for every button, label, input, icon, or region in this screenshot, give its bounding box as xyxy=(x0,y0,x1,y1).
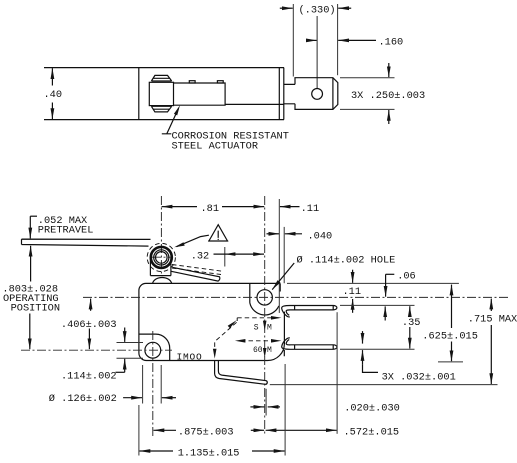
svg-text:3X .250±.003: 3X .250±.003 xyxy=(351,90,425,102)
roller body xyxy=(149,82,173,105)
svg-text:.35: .35 xyxy=(402,317,421,329)
roller top cap xyxy=(151,75,171,81)
top view body bottom edge with extension xyxy=(44,119,284,121)
dim (.330) left extension xyxy=(292,4,294,77)
top view body right edge inner xyxy=(278,68,280,120)
dim .250 bottom extension xyxy=(340,108,395,110)
mounting boss top right xyxy=(250,283,280,315)
hidden mechanism dashed diagonal xyxy=(215,318,238,353)
lever curl outer ring xyxy=(151,247,172,268)
dim 1.135 xyxy=(140,450,174,452)
dim .11 top xyxy=(280,206,300,208)
plunger dome xyxy=(153,277,172,283)
extension body left bottom xyxy=(138,405,140,456)
travel arrowhead upper on centerline xyxy=(263,321,267,331)
dim .160 left arrow xyxy=(307,39,316,41)
lever tab 2 xyxy=(217,81,223,83)
switch body outline xyxy=(139,283,285,360)
top view body top edge with extension xyxy=(44,67,284,69)
dim (.330) right extension xyxy=(337,4,339,75)
dimension .40 upper arrow xyxy=(51,68,53,85)
dimension .40 lower arrow xyxy=(51,103,53,120)
top view body right edge outer xyxy=(283,68,285,120)
dim .06 xyxy=(386,273,395,275)
dim (.330) right arrow xyxy=(338,7,351,9)
lever curl inner ring xyxy=(156,252,168,264)
lever free tip extension line xyxy=(224,247,226,267)
terminal blade 2 xyxy=(291,345,337,350)
lever right arm dashed free position xyxy=(172,265,223,275)
centerline hole BL horizontal xyxy=(21,349,172,351)
terminal hook 1 xyxy=(282,305,291,316)
dim .126 hole xyxy=(142,365,144,404)
dim .160 right arrow xyxy=(338,39,376,41)
svg-text:IMOO: IMOO xyxy=(177,352,203,363)
dim .040 xyxy=(267,233,280,235)
extension body right bottom xyxy=(284,364,286,456)
svg-text:Ø .114±.002 HOLE: Ø .114±.002 HOLE xyxy=(297,254,396,266)
dim (.330) left arrow xyxy=(280,7,293,9)
dim .114 xyxy=(117,342,144,344)
dim .875 xyxy=(154,429,177,431)
extension blade1 top xyxy=(340,304,415,306)
dim .572 xyxy=(266,429,337,431)
common terminal bent xyxy=(215,361,268,385)
svg-text:.114±.002: .114±.002 xyxy=(61,370,117,382)
terminal hook 2 xyxy=(282,338,291,349)
lever flat arm xyxy=(22,239,151,246)
dim .250 top arrow xyxy=(388,63,390,77)
dim .32 xyxy=(214,253,265,255)
extension terminal tip xyxy=(265,389,267,416)
svg-text:60: 60 xyxy=(253,346,263,355)
dim .35 xyxy=(409,306,411,314)
svg-text:S: S xyxy=(254,324,259,333)
svg-text:.11: .11 xyxy=(301,203,320,215)
warning triangle xyxy=(208,225,228,241)
svg-text:.715 MAX: .715 MAX xyxy=(468,314,517,326)
extension blade tips vertical xyxy=(336,312,338,434)
extension line body right xyxy=(283,227,285,283)
svg-text:(.330): (.330) xyxy=(299,5,336,17)
dim .803 operating position xyxy=(30,246,32,282)
dim .250 top extension xyxy=(340,77,395,79)
body slot edge top view xyxy=(225,103,284,105)
pivot bracket xyxy=(150,258,171,276)
svg-text:.81: .81 xyxy=(201,203,220,215)
svg-text:1.135±.015: 1.135±.015 xyxy=(178,447,240,459)
svg-text:.625±.015: .625±.015 xyxy=(422,331,478,343)
dim .625 xyxy=(451,285,453,328)
dim .052 pretravel xyxy=(30,215,37,217)
dim .020 xyxy=(250,406,264,408)
terminal hole centerline xyxy=(316,16,318,88)
terminal tab top view xyxy=(295,78,338,110)
mounting boss bottom left xyxy=(139,334,170,360)
centerline hole TR vertical xyxy=(264,196,266,434)
svg-text:.06: .06 xyxy=(397,271,416,283)
svg-text:3X .032±.001: 3X .032±.001 xyxy=(382,372,456,384)
svg-text:.572±.015: .572±.015 xyxy=(344,427,400,439)
hidden mechanism dashed middle xyxy=(241,340,277,342)
roller bottom cap xyxy=(151,106,171,112)
warning triangle leader xyxy=(177,235,209,247)
svg-text:.040: .040 xyxy=(308,231,333,243)
top view body left edge xyxy=(138,68,140,120)
centerline hole TR horizontal xyxy=(83,296,509,298)
lever arm top view xyxy=(174,83,226,105)
extension blade2 bottom xyxy=(340,348,415,350)
hidden mechanism dashed top xyxy=(237,317,278,319)
dim 3X .032 xyxy=(362,331,364,344)
svg-text:.40: .40 xyxy=(44,89,63,101)
terminal neck top view xyxy=(284,84,295,103)
leader hole .114 xyxy=(272,263,294,290)
travel arrowhead lower on centerline xyxy=(263,348,267,358)
lever right arm solid xyxy=(171,267,220,281)
svg-text:.875±.003: .875±.003 xyxy=(178,427,234,439)
lever curl middle ring xyxy=(154,250,169,265)
mounting hole bottom left xyxy=(145,342,161,358)
centerline hole BL vertical xyxy=(152,331,154,438)
dim .81 xyxy=(162,206,197,208)
extension body top right xyxy=(287,282,459,284)
svg-text:.406±.003: .406±.003 xyxy=(61,319,117,331)
centerline lever pivot vertical xyxy=(160,196,162,276)
svg-text:.11: .11 xyxy=(343,286,362,298)
svg-text:.160: .160 xyxy=(379,36,404,48)
terminal hole top view xyxy=(312,89,323,100)
extension line boss right xyxy=(278,199,280,313)
centerline curl horizontal xyxy=(152,256,173,258)
svg-text:Ø .126±.002: Ø .126±.002 xyxy=(49,393,117,405)
dim .715 max xyxy=(490,299,492,311)
lever tab 1 xyxy=(189,81,195,83)
svg-text:M: M xyxy=(267,324,272,333)
svg-text:STEEL ACTUATOR: STEEL ACTUATOR xyxy=(172,141,259,153)
dim .250 bottom arrow xyxy=(388,110,390,124)
mounting hole top right xyxy=(257,290,272,305)
svg-text:.020±.030: .020±.030 xyxy=(344,403,400,415)
svg-text:POSITION: POSITION xyxy=(11,303,60,315)
svg-text:PRETRAVEL: PRETRAVEL xyxy=(38,224,94,236)
terminal blade 1 xyxy=(291,306,337,310)
svg-text:M: M xyxy=(267,346,272,355)
leader corrosion resistant xyxy=(162,108,179,133)
roller phantom dashed circle xyxy=(147,243,175,271)
svg-text:.32: .32 xyxy=(191,251,210,263)
